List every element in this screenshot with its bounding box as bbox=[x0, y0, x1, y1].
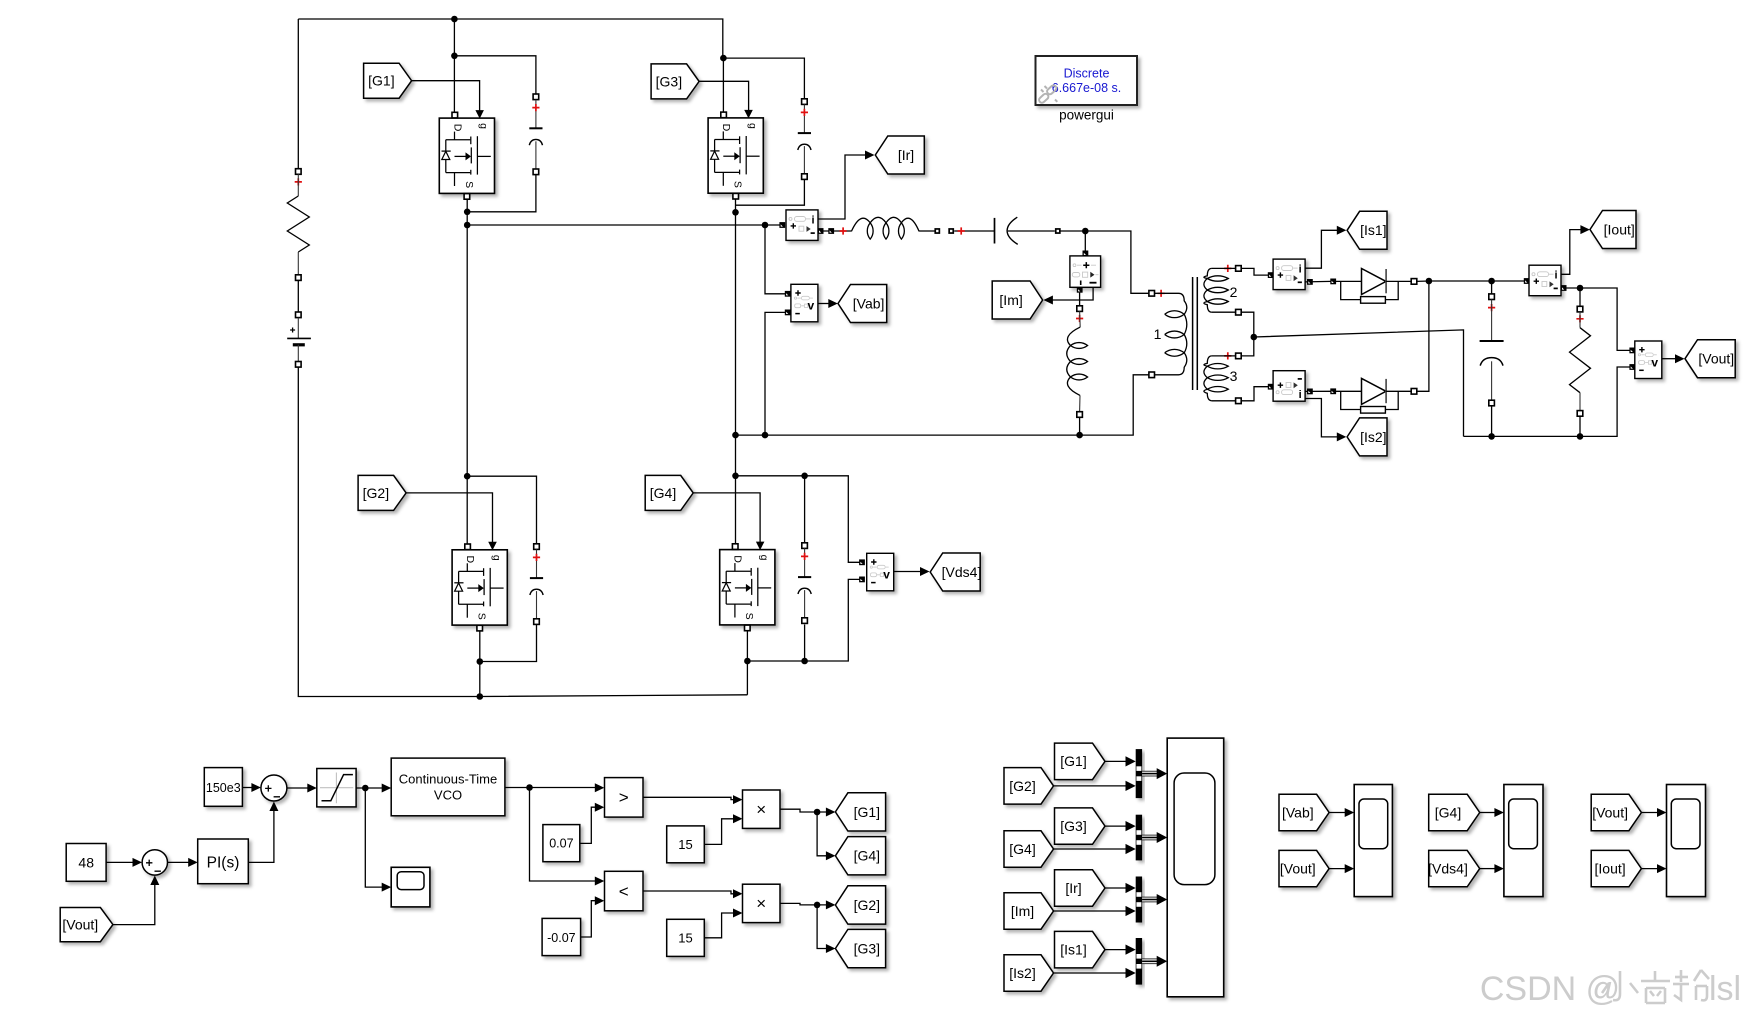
from tag [G4] to scope bbox=[1429, 794, 1480, 830]
wire gt to product1 bbox=[643, 795, 743, 804]
svg-text:i: i bbox=[1299, 264, 1302, 276]
wire center tap bbox=[1241, 312, 1463, 436]
svg-text:15: 15 bbox=[678, 837, 692, 852]
from tag [G1] scope-in bbox=[1055, 743, 1106, 780]
wire [Ir] to mux bbox=[1105, 883, 1136, 893]
wire M4 drain branch to Vds4+ bbox=[736, 473, 860, 563]
svg-text:1: 1 bbox=[1154, 326, 1162, 342]
wire [Is2] to mux bbox=[1054, 968, 1136, 978]
wire lt to product2 bbox=[643, 889, 743, 898]
constant -0.07 bbox=[542, 918, 581, 955]
svg-text:[Vab]: [Vab] bbox=[1282, 804, 1314, 820]
constant 15 lower bbox=[667, 919, 705, 956]
transformer core bbox=[1193, 277, 1198, 390]
svg-text:g: g bbox=[758, 555, 770, 561]
wire [G3] to mux bbox=[1105, 821, 1136, 831]
from tag Im bbox=[992, 281, 1042, 319]
svg-text:[Iout]: [Iout] bbox=[1595, 861, 1626, 877]
wire -0.07 to less-than bbox=[581, 896, 605, 937]
wire PI to sum2 bbox=[248, 802, 278, 863]
svg-text:Continuous-Time: Continuous-Time bbox=[399, 772, 498, 787]
saturation block bbox=[317, 769, 356, 807]
svg-text:<: < bbox=[619, 882, 629, 901]
constant 15 upper bbox=[667, 826, 705, 863]
ammeter Iout block bbox=[1524, 265, 1567, 296]
from tag [Vab] to scope bbox=[1279, 794, 1329, 830]
ammeter Is1 block bbox=[1273, 259, 1305, 290]
svg-text:[G4]: [G4] bbox=[1009, 841, 1035, 857]
wire Vab+ bbox=[765, 225, 786, 294]
mosfet Q4 bbox=[720, 542, 775, 631]
product block 2 bbox=[743, 884, 781, 922]
svg-text:[Vout]: [Vout] bbox=[1592, 804, 1628, 820]
wire DC output top rail bbox=[1417, 278, 1527, 285]
wire 15 to product1 bbox=[704, 814, 742, 844]
svg-text:CSDN @: CSDN @ bbox=[1480, 970, 1620, 1008]
constant 0.07 bbox=[543, 825, 580, 862]
svg-text:VCO: VCO bbox=[434, 788, 462, 803]
svg-text:g: g bbox=[490, 555, 502, 561]
svg-text:[Is2]: [Is2] bbox=[1009, 965, 1035, 981]
wire [Is1] to mux bbox=[1105, 945, 1136, 955]
svg-text:×: × bbox=[756, 894, 766, 913]
node top-left junction bbox=[451, 16, 458, 23]
from tag Vds4 bbox=[930, 553, 981, 591]
sum block sum1 bbox=[142, 850, 167, 875]
svg-text:48: 48 bbox=[78, 854, 94, 870]
wire source link bbox=[297, 280, 299, 312]
svg-text:[G1]: [G1] bbox=[854, 804, 880, 820]
svg-text:[Im]: [Im] bbox=[999, 292, 1022, 308]
from tag [Iout] to scope bbox=[1591, 850, 1641, 886]
from tag Vout bbox=[1685, 340, 1735, 378]
capacitor snubber C2 bbox=[530, 544, 543, 625]
svg-text:[G3]: [G3] bbox=[1060, 818, 1086, 834]
from tag [Ir] scope-in bbox=[1055, 870, 1106, 906]
capacitor snubber C4 bbox=[798, 543, 811, 624]
goto tag G1 bbox=[364, 63, 412, 98]
relational operator greater-than bbox=[605, 778, 644, 818]
svg-text:[Im]: [Im] bbox=[1011, 903, 1034, 919]
voltmeter Vds4 block bbox=[859, 553, 894, 591]
wire mux to scope vector bbox=[1142, 832, 1167, 843]
svg-text:×: × bbox=[756, 800, 766, 819]
wire G1 gate bbox=[412, 81, 480, 111]
svg-text:S: S bbox=[732, 181, 744, 188]
diode D2 with snubber bbox=[1336, 378, 1417, 413]
svg-text:[Ir]: [Ir] bbox=[1065, 880, 1081, 896]
svg-text:[G4]: [G4] bbox=[1435, 804, 1461, 820]
powergui block bbox=[1036, 56, 1138, 123]
watermark CSDN bbox=[1480, 970, 1741, 1008]
inductor Lr bbox=[851, 217, 940, 239]
wire Im signal bbox=[1043, 287, 1093, 304]
from tag [G2] scope-in bbox=[1004, 768, 1054, 805]
wire winding3 to Is2 bbox=[1241, 384, 1273, 401]
mosfet Q1 bbox=[439, 110, 494, 199]
mux [Is1]/[Is2] bbox=[1136, 938, 1142, 985]
wire Im branch top bbox=[1083, 231, 1089, 256]
svg-text:[Ir]: [Ir] bbox=[898, 147, 914, 163]
transformer primary winding 1 bbox=[1149, 290, 1187, 378]
voltmeter Vab block bbox=[785, 284, 818, 322]
svg-text:powergui: powergui bbox=[1059, 108, 1114, 123]
svg-text:D: D bbox=[720, 124, 732, 132]
svg-text:-0.07: -0.07 bbox=[547, 931, 576, 945]
svg-text:D: D bbox=[451, 124, 463, 132]
capacitor Cout bbox=[1480, 281, 1504, 440]
goto tag G1 out bbox=[835, 793, 885, 831]
svg-text:D: D bbox=[732, 555, 744, 563]
svg-text:>: > bbox=[619, 788, 629, 807]
mux [G3]/[G4] bbox=[1136, 815, 1142, 861]
wire top DC bus bbox=[298, 19, 723, 172]
capacitor snubber C3 bbox=[798, 99, 811, 180]
diode D1 with snubber bbox=[1336, 269, 1417, 304]
voltmeter Vout block bbox=[1629, 341, 1661, 379]
svg-text:[G1]: [G1] bbox=[368, 73, 394, 89]
wire M2 source return bbox=[477, 625, 537, 700]
transformer secondary winding 3 bbox=[1204, 352, 1241, 403]
ammeter Ir block bbox=[779, 210, 818, 241]
wire G3 gate bbox=[699, 81, 749, 111]
VCO block bbox=[391, 758, 505, 816]
constant 48 bbox=[66, 844, 106, 882]
svg-text:[G2]: [G2] bbox=[1009, 778, 1035, 794]
svg-text:[G2]: [G2] bbox=[854, 897, 880, 913]
svg-text:v: v bbox=[1651, 355, 1658, 369]
svg-text:[Vout]: [Vout] bbox=[62, 917, 98, 933]
scope1 block bbox=[391, 867, 430, 907]
svg-text:[G1]: [G1] bbox=[1060, 753, 1086, 769]
wire saturation to VCO bbox=[356, 784, 391, 793]
wire Is2 to D2 bbox=[1305, 388, 1336, 394]
goto tag G4 out bbox=[835, 837, 885, 875]
wire G4 gate bbox=[693, 493, 760, 543]
wire Is1 to D1 bbox=[1305, 279, 1336, 285]
sum block sum2 bbox=[261, 775, 287, 801]
wire M2 drain branch bbox=[464, 473, 537, 544]
from tag Vout ref bbox=[60, 908, 113, 942]
goto tag G3 bbox=[651, 64, 699, 99]
PI controller block bbox=[198, 839, 249, 884]
scope multichannel bbox=[1167, 738, 1224, 997]
from tag [Vout] to scope bbox=[1591, 794, 1641, 830]
from tag [G3] scope-in bbox=[1055, 808, 1106, 844]
constant 150e3 bbox=[204, 768, 242, 807]
wire product1 to G1 G4 bbox=[780, 808, 835, 861]
wire Vab signal bbox=[818, 299, 837, 308]
scope [G4]/[Vds4] bbox=[1504, 785, 1543, 897]
svg-text:i: i bbox=[1299, 389, 1302, 401]
wire bottom DC return rail bbox=[298, 367, 747, 696]
wire Vout signal bbox=[1662, 354, 1684, 363]
wire [G4] to mux bbox=[1054, 844, 1136, 854]
wire VCO to less-than bbox=[530, 788, 605, 886]
wire Vout to sum1 bbox=[113, 876, 159, 925]
svg-text:S: S bbox=[743, 613, 755, 620]
from tag Is2 bbox=[1347, 418, 1387, 456]
svg-text:g: g bbox=[746, 123, 758, 129]
wire Ir signal bbox=[818, 151, 874, 220]
svg-text:[Is1]: [Is1] bbox=[1060, 942, 1086, 958]
goto tag G2 out bbox=[835, 886, 885, 924]
svg-text:Discrete: Discrete bbox=[1064, 67, 1110, 81]
from tag [Im] scope-in bbox=[1004, 893, 1054, 929]
svg-text:D: D bbox=[464, 556, 476, 564]
svg-text:g: g bbox=[478, 123, 490, 129]
ammeter Is2 block bbox=[1273, 371, 1305, 402]
svg-text:[G2]: [G2] bbox=[363, 485, 389, 501]
wire [G4] to scope bbox=[1480, 808, 1504, 817]
wire sum2 to saturation bbox=[287, 784, 317, 793]
svg-text:0.07: 0.07 bbox=[549, 837, 573, 851]
dc source V1 bbox=[287, 312, 311, 367]
goto tag G2 bbox=[358, 475, 406, 510]
wire M3 drain branch bbox=[720, 55, 804, 113]
wire saturation to scope1 bbox=[365, 788, 391, 892]
svg-text:S: S bbox=[463, 181, 475, 188]
mosfet Q3 bbox=[708, 110, 763, 199]
svg-text:[Iout]: [Iout] bbox=[1604, 221, 1635, 237]
svg-text:[Is2]: [Is2] bbox=[1360, 429, 1386, 445]
wire Vab- bbox=[762, 312, 787, 438]
wire sum1 to PI bbox=[168, 858, 198, 867]
ammeter Im block bbox=[1070, 256, 1101, 287]
goto tag G4 bbox=[645, 475, 693, 510]
wire [G2] to mux bbox=[1054, 781, 1136, 791]
wire winding2 to Is1 bbox=[1241, 268, 1273, 278]
svg-text:[Vds4]: [Vds4] bbox=[942, 564, 982, 580]
wire Lm to return rail bbox=[1076, 417, 1083, 438]
from tag [Is1] scope-in bbox=[1055, 931, 1106, 968]
svg-text:PI(s): PI(s) bbox=[207, 855, 240, 872]
transformer secondary winding 2 bbox=[1204, 265, 1241, 315]
svg-text:[Vds4]: [Vds4] bbox=[1428, 861, 1468, 877]
wire 15 to product2 bbox=[704, 909, 742, 938]
product block 1 bbox=[743, 790, 781, 828]
resistor Rsource bbox=[287, 169, 309, 281]
wire [Vab] to scope bbox=[1329, 808, 1354, 817]
wire [Iout] to scope bbox=[1641, 864, 1666, 873]
from tag Ir bbox=[875, 136, 924, 174]
wire transformer return rail bbox=[736, 375, 1149, 435]
mosfet Q2 bbox=[452, 542, 507, 631]
wire Lr to Cr bbox=[948, 227, 994, 234]
wire M1 source / node A bbox=[464, 175, 536, 547]
wire M3 source / node B bbox=[732, 180, 804, 547]
goto tag G3 out bbox=[835, 929, 885, 967]
wire Iout to load bbox=[1566, 285, 1632, 351]
wire Cr to transformer bbox=[1060, 228, 1149, 294]
wire M1 drain branch bbox=[451, 19, 536, 113]
wire D2 output riser bbox=[1417, 278, 1433, 392]
wire [Vout] to scope bbox=[1641, 808, 1666, 817]
wire VCO output bbox=[505, 783, 604, 792]
wire Im to Lm bbox=[1077, 287, 1083, 309]
from tag Iout bbox=[1590, 211, 1636, 249]
wire 0.07 to greater-than bbox=[580, 803, 605, 844]
wire [Vds4] to scope bbox=[1480, 864, 1504, 873]
mux [G1]/[G2] bbox=[1136, 749, 1142, 798]
svg-text:[Vout]: [Vout] bbox=[1280, 861, 1316, 877]
from tag [Vds4] to scope bbox=[1428, 850, 1480, 886]
svg-text:S: S bbox=[476, 613, 488, 620]
svg-text:6.667e-08 s.: 6.667e-08 s. bbox=[1052, 81, 1122, 95]
relational operator less-than bbox=[605, 871, 644, 911]
svg-text:v: v bbox=[807, 299, 814, 313]
svg-text:[G3]: [G3] bbox=[656, 73, 682, 89]
wire node A rail to Ir bbox=[467, 222, 779, 229]
capacitor Cr bbox=[995, 217, 1061, 244]
svg-text:[Is1]: [Is1] bbox=[1360, 222, 1386, 238]
from tag Is1 bbox=[1347, 211, 1387, 249]
svg-text:2: 2 bbox=[1230, 284, 1238, 300]
wire Is2 signal bbox=[1305, 399, 1346, 442]
svg-text:[Vab]: [Vab] bbox=[853, 295, 885, 311]
wire 48 to sum1 bbox=[106, 858, 142, 867]
from tag [Vout] to scope bbox=[1279, 850, 1329, 886]
wire mux to scope vector bbox=[1142, 894, 1167, 905]
scope [Vout]/[Iout] bbox=[1667, 785, 1706, 897]
svg-text:i: i bbox=[1554, 270, 1557, 282]
svg-text:3: 3 bbox=[1230, 368, 1238, 384]
svg-text:15: 15 bbox=[678, 931, 692, 946]
wire G2 gate bbox=[406, 493, 492, 543]
svg-text:v: v bbox=[883, 568, 890, 582]
wire product2 to G2 G3 bbox=[780, 900, 835, 953]
from tag [G4] scope-in bbox=[1004, 831, 1054, 867]
wire [G1] to mux bbox=[1105, 756, 1136, 766]
svg-text:[G3]: [G3] bbox=[854, 940, 880, 956]
svg-text:[G4]: [G4] bbox=[854, 848, 880, 864]
svg-text:[G4]: [G4] bbox=[650, 485, 676, 501]
wire M4 source return and Vds4- bbox=[744, 579, 860, 694]
wire mux to scope vector bbox=[1142, 768, 1167, 779]
from tag [Is2] scope-in bbox=[1004, 955, 1054, 991]
wire Vds4 signal bbox=[894, 567, 930, 576]
wire mux to scope vector bbox=[1142, 956, 1167, 967]
from tag Vab bbox=[838, 285, 887, 323]
wire Ir to Lr bbox=[818, 227, 852, 234]
svg-text:[Vout]: [Vout] bbox=[1698, 351, 1734, 367]
wire output bottom rail bbox=[1464, 367, 1633, 436]
svg-text:i: i bbox=[811, 214, 814, 226]
wire 150e3 to sum2 bbox=[242, 783, 261, 792]
inductor Lm bbox=[1067, 306, 1088, 418]
scope [Vab]/[Vout] bbox=[1354, 785, 1392, 897]
svg-text:150e3: 150e3 bbox=[206, 781, 241, 795]
resistor Rload bbox=[1570, 288, 1591, 440]
wire Is1 signal bbox=[1305, 226, 1346, 268]
mux [Ir]/[Im] bbox=[1136, 877, 1142, 923]
wire [Vout] to scope bbox=[1329, 864, 1354, 873]
svg-text:lsl: lsl bbox=[1709, 970, 1741, 1008]
wire Iout signal bbox=[1561, 225, 1590, 274]
capacitor snubber C1 bbox=[529, 94, 542, 175]
wire [Im] to mux bbox=[1054, 906, 1136, 916]
